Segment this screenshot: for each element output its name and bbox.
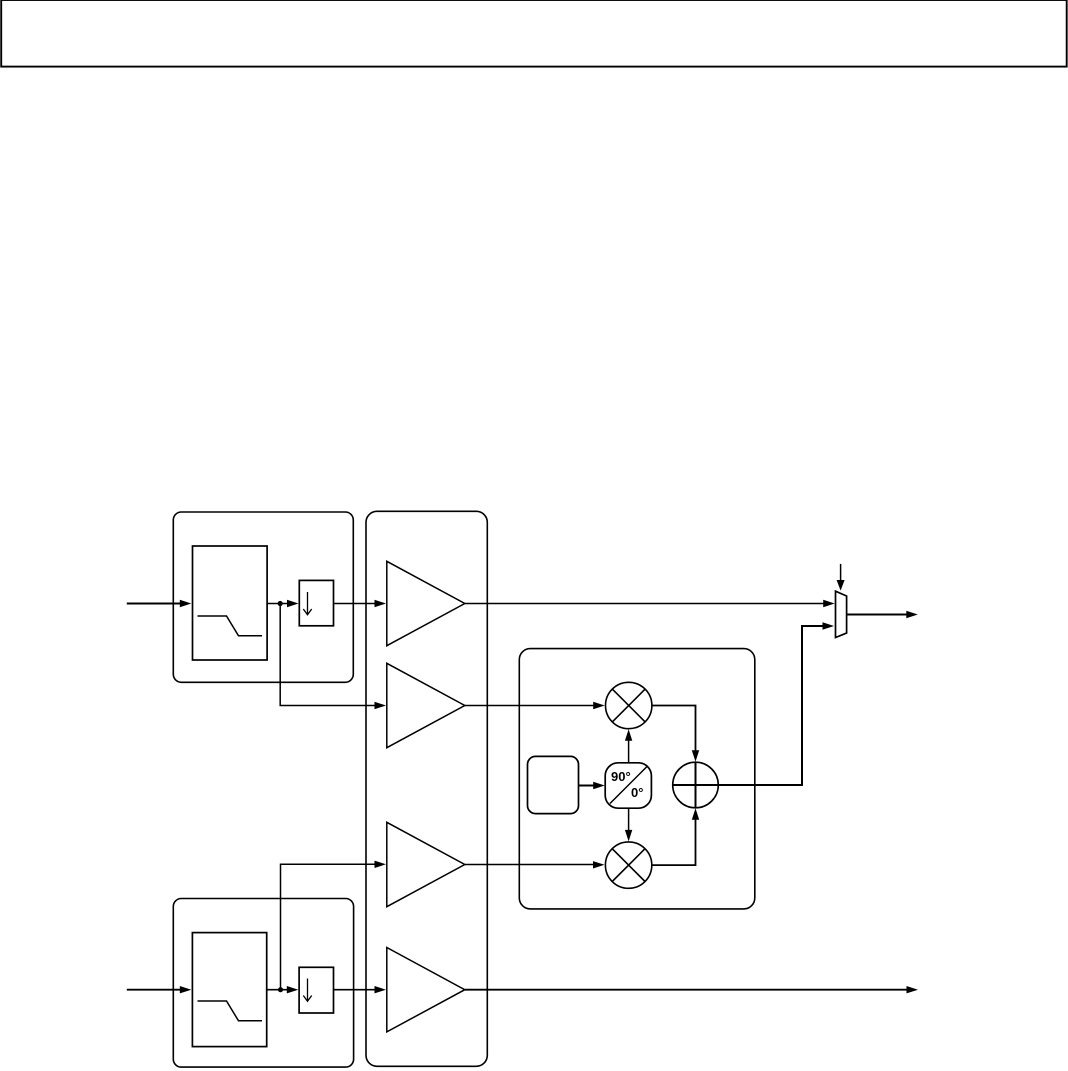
input wire Q: [127, 989, 180, 991]
wire: phase splitter to mixer M1: [628, 740, 630, 763]
wire: phase splitter to mixer M2: [628, 808, 630, 831]
wire: junction J1 to amplifier A2: [280, 604, 375, 706]
mixer M1 (top): [606, 682, 652, 728]
junction J1: [278, 601, 283, 606]
low-pass filter box (Q): [192, 933, 266, 1047]
junction J2: [278, 987, 283, 992]
decimator down-arrow (I): [303, 592, 311, 615]
summer S1: [673, 762, 719, 808]
filter block enclosure (I): [173, 512, 353, 682]
wire: amplifier A2 to mixer M1: [465, 705, 594, 707]
low-pass response curve (I): [198, 616, 263, 636]
amplifier A1: [387, 561, 465, 645]
wire: amplifier A3 to mixer M2: [465, 864, 594, 866]
wire: filter Q to decimator: [267, 989, 288, 991]
wire: mixer M2 to summer: [652, 820, 696, 866]
wire: decimator I to amplifier A1: [334, 603, 376, 605]
mux output wire: [847, 614, 906, 616]
wire: oscillator to phase splitter: [579, 785, 594, 787]
local oscillator box: [528, 756, 579, 813]
low-pass filter box (I): [193, 546, 268, 660]
mux select wire: [840, 564, 842, 581]
wire: junction J2 to amplifier A3: [281, 864, 376, 989]
filter block enclosure (Q): [173, 899, 353, 1068]
wire: decimator Q to amplifier A4: [334, 989, 376, 991]
header frame: [1, 0, 1067, 67]
wire: mixer M1 to summer: [652, 706, 696, 751]
decimator down-arrow (Q): [303, 979, 311, 1002]
wire: amplifier A1 to mux input 1: [465, 603, 824, 605]
90/0 phase splitter: [605, 763, 651, 808]
low-pass response curve (Q): [198, 1001, 263, 1021]
mixer M2 (bottom): [605, 842, 651, 888]
wire: summer to mux input 2: [718, 626, 822, 785]
wire: amplifier A4 to output: [465, 989, 907, 991]
amplifier A4: [387, 948, 465, 1032]
decimator box (Q): [299, 967, 333, 1013]
amplifier A3: [387, 822, 465, 906]
decimator box (I): [299, 580, 333, 625]
svg-text:90°: 90°: [611, 769, 631, 784]
input wire I: [127, 603, 180, 605]
wire: filter I to decimator: [267, 603, 288, 605]
amplifier A2: [387, 663, 465, 747]
svg-text:0°: 0°: [631, 785, 643, 800]
